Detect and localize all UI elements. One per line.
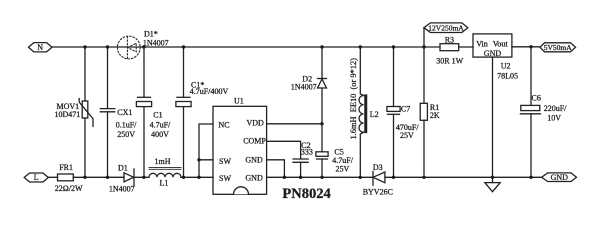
svg-text:L1: L1 bbox=[160, 178, 169, 187]
svg-text:BYV26C: BYV26C bbox=[363, 187, 393, 196]
svg-text:22Ω/2W: 22Ω/2W bbox=[55, 184, 83, 193]
svg-text:4.7uF/: 4.7uF/ bbox=[332, 156, 353, 165]
svg-text:25V: 25V bbox=[336, 165, 350, 174]
svg-text:N: N bbox=[37, 43, 43, 52]
svg-text:COMP: COMP bbox=[243, 136, 266, 145]
svg-text:333: 333 bbox=[301, 147, 313, 156]
svg-text:4.7uF/400V: 4.7uF/400V bbox=[190, 87, 229, 96]
svg-text:1N4007: 1N4007 bbox=[143, 39, 169, 48]
svg-text:2K: 2K bbox=[430, 111, 440, 120]
svg-text:12V250mA: 12V250mA bbox=[428, 24, 464, 33]
svg-text:U1: U1 bbox=[234, 97, 244, 106]
svg-text:5V50mA: 5V50mA bbox=[544, 43, 573, 52]
svg-text:D1*: D1* bbox=[144, 29, 158, 38]
svg-text:Vout: Vout bbox=[493, 40, 509, 49]
svg-text:U2: U2 bbox=[501, 61, 511, 70]
svg-text:10V: 10V bbox=[547, 114, 561, 123]
svg-text:GND: GND bbox=[245, 156, 263, 165]
svg-text:NC: NC bbox=[219, 121, 230, 130]
svg-text:L: L bbox=[34, 173, 39, 182]
svg-text:D3: D3 bbox=[373, 163, 383, 172]
svg-text:D1: D1 bbox=[118, 164, 128, 173]
svg-text:L2: L2 bbox=[370, 110, 379, 119]
svg-text:250V: 250V bbox=[117, 130, 135, 139]
svg-text:C7: C7 bbox=[401, 105, 410, 114]
svg-text:220uF/: 220uF/ bbox=[544, 104, 567, 113]
svg-text:CX1: CX1 bbox=[117, 108, 132, 117]
svg-text:30R 1W: 30R 1W bbox=[436, 57, 463, 66]
svg-text:1.6mH EE10 (or 9*12): 1.6mH EE10 (or 9*12) bbox=[349, 58, 358, 140]
svg-text:FR1: FR1 bbox=[59, 163, 73, 172]
svg-text:10D471: 10D471 bbox=[55, 110, 81, 119]
svg-text:1mH: 1mH bbox=[155, 157, 171, 166]
svg-text:GND: GND bbox=[551, 173, 569, 182]
svg-text:SW: SW bbox=[219, 157, 231, 166]
svg-text:GND: GND bbox=[245, 173, 263, 182]
svg-text:VDD: VDD bbox=[247, 119, 265, 128]
svg-text:4.7uF/: 4.7uF/ bbox=[150, 120, 171, 129]
svg-text:C6: C6 bbox=[532, 94, 541, 103]
svg-text:GND: GND bbox=[484, 49, 502, 58]
svg-text:25V: 25V bbox=[400, 131, 414, 140]
svg-text:78L05: 78L05 bbox=[497, 72, 518, 81]
svg-text:400V: 400V bbox=[151, 130, 169, 139]
svg-text:SW: SW bbox=[219, 174, 231, 183]
svg-text:1N4007: 1N4007 bbox=[291, 82, 317, 91]
svg-text:0.1uF/: 0.1uF/ bbox=[116, 120, 137, 129]
svg-text:PN8024: PN8024 bbox=[282, 186, 330, 202]
svg-text:R3: R3 bbox=[445, 36, 454, 45]
svg-text:Vin: Vin bbox=[476, 40, 488, 49]
svg-text:1N4007: 1N4007 bbox=[109, 185, 135, 194]
svg-text:C1: C1 bbox=[153, 110, 162, 119]
